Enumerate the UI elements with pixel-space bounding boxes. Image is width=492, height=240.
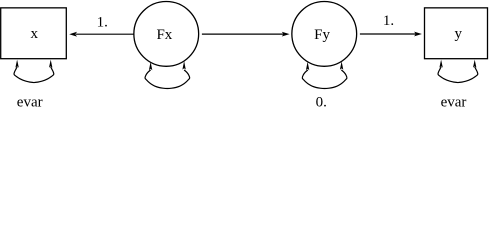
arrowhead into x <box>69 32 77 37</box>
svg-text:evar: evar <box>441 95 467 109</box>
arrowhead Fy-loop right <box>340 61 343 70</box>
svg-text:y: y <box>455 26 463 42</box>
svg-text:0.: 0. <box>316 95 327 109</box>
svg-text:x: x <box>30 26 38 42</box>
arrowhead Fx-loop right <box>182 61 185 70</box>
variance self-loop arc on Fx <box>145 70 190 89</box>
arrowhead into Fy <box>282 32 290 37</box>
arrowhead y-loop left <box>439 60 442 68</box>
arrowhead y-loop right <box>473 60 476 68</box>
latent variable circle Fx <box>134 2 199 67</box>
latent variable circle Fy <box>292 2 357 67</box>
observed variable box x <box>1 8 67 59</box>
observed variable box y <box>425 8 488 59</box>
variance self-loop arc on x <box>14 67 54 83</box>
wire path Fx to x <box>76 33 134 35</box>
variance self-loop arc on y <box>438 67 478 83</box>
arrowhead Fy-loop left <box>306 62 309 70</box>
arrowhead x-loop left <box>15 60 18 68</box>
svg-text:evar: evar <box>17 95 43 109</box>
svg-text:Fx: Fx <box>156 27 172 43</box>
variance self-loop arc on Fy <box>302 70 347 89</box>
svg-text:Fy: Fy <box>314 27 330 43</box>
svg-text:1.: 1. <box>383 13 394 29</box>
arrowhead x-loop right <box>49 60 52 68</box>
svg-text:1.: 1. <box>97 14 108 30</box>
wire path Fx to Fy <box>202 33 284 35</box>
arrowhead into y <box>414 32 422 37</box>
arrowhead Fx-loop left <box>149 62 152 70</box>
wire path Fy to y <box>360 33 416 35</box>
